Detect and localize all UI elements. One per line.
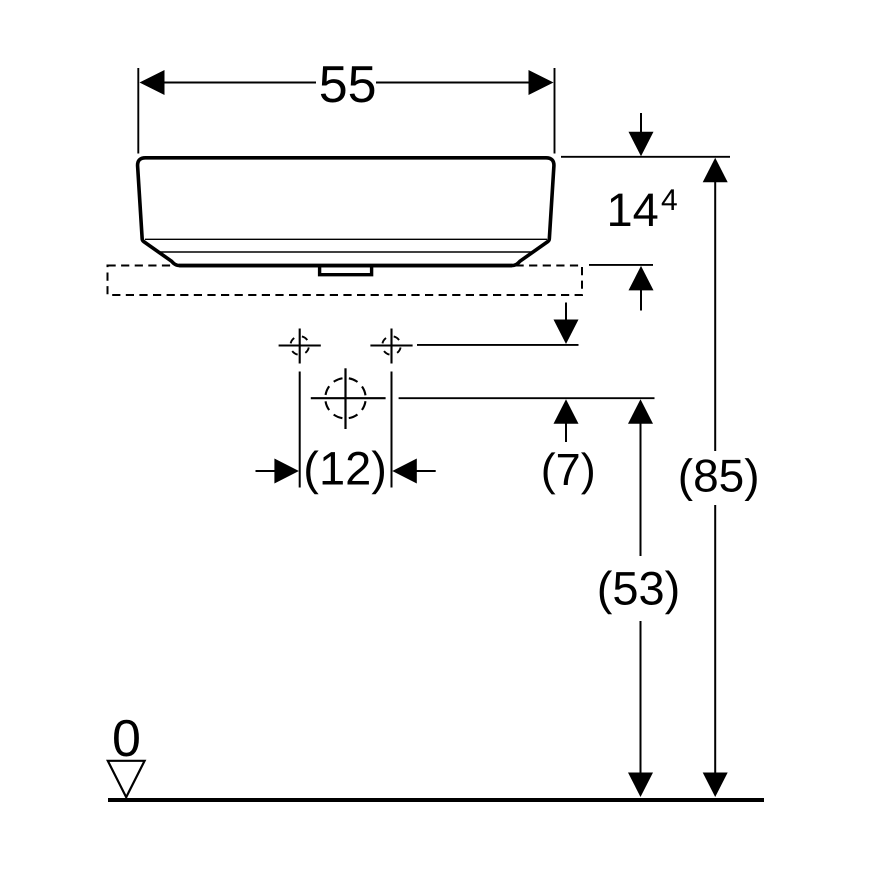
svg-text:0: 0 [112, 710, 141, 768]
dimension 55 extension line right [554, 68, 556, 154]
dimension 14.4 down arrow [629, 113, 654, 156]
washbasin drain tab [320, 266, 372, 275]
dimension 55 extension line left [137, 68, 139, 154]
datum triangle [108, 761, 145, 797]
dimension 85 line upper [703, 158, 728, 451]
drain hole crosshair [311, 368, 386, 429]
faucet hole left crosshair [279, 329, 321, 364]
svg-text:55: 55 [319, 56, 377, 114]
floor line [108, 798, 764, 802]
dimension 14.4 up arrow [629, 266, 654, 311]
faucet height reference line [417, 344, 579, 346]
dimension 7 up arrow [554, 399, 579, 442]
svg-text:(12): (12) [303, 442, 387, 495]
dimension 12 right arrow [392, 459, 435, 484]
dimension 53 line upper [628, 399, 653, 556]
svg-text:4: 4 [661, 184, 678, 217]
svg-text:(85): (85) [678, 449, 760, 501]
dimension 12 extension line left [299, 372, 301, 488]
dimension 55 arrowhead right [529, 70, 554, 95]
dimension 12 extension line right [391, 372, 393, 488]
dimension 55 arrowhead left [140, 70, 165, 95]
washbasin bottom edge [179, 264, 512, 268]
dimension 14.4 bottom reference line [589, 264, 653, 266]
dimension 53 line lower [628, 621, 653, 797]
svg-text:14: 14 [607, 183, 659, 236]
dimension 55 line left segment [163, 82, 316, 84]
washbasin rim inner line [145, 238, 547, 240]
washbasin base inner line [160, 251, 533, 253]
svg-text:(53): (53) [597, 562, 681, 615]
dimension 55 line right segment [376, 82, 530, 84]
dimension 85 line lower [703, 505, 728, 797]
dimension 7 down arrow [554, 303, 579, 345]
washbasin outline [138, 158, 554, 266]
faucet hole right crosshair [370, 329, 412, 364]
svg-text:(7): (7) [541, 444, 596, 495]
drain height reference line [399, 397, 655, 399]
dimension 12 left arrow [256, 459, 299, 484]
countertop dashed outline [108, 266, 583, 296]
dimension 14.4 top reference line [561, 156, 730, 158]
